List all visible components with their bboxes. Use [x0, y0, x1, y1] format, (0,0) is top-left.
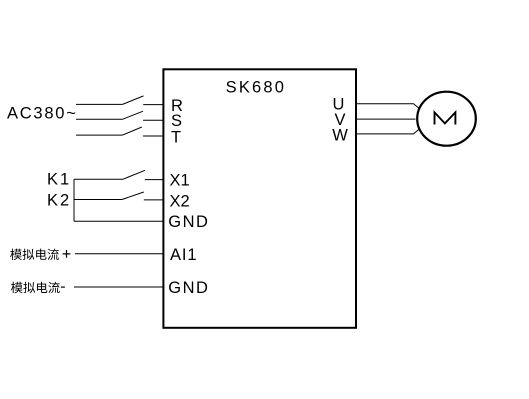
- label analog current - (模拟电流-): [11, 282, 65, 293]
- wire S phase input: [76, 118, 123, 120]
- wire W to motor: [356, 129, 419, 134]
- wire to terminal X2: [144, 199, 164, 201]
- wire U to motor: [356, 104, 419, 109]
- wire to terminal S: [143, 119, 164, 121]
- wire to terminal X1: [145, 179, 164, 181]
- svg-text:AC380~: AC380~: [7, 105, 78, 123]
- svg-text:GND: GND: [168, 279, 209, 297]
- switch S2 (phase S): [123, 111, 144, 119]
- svg-text:K2: K2: [47, 192, 71, 210]
- wire AI1 input: [75, 253, 164, 255]
- label M (motor): [435, 112, 456, 124]
- svg-text:S: S: [171, 112, 182, 130]
- svg-text:T: T: [171, 129, 181, 147]
- svg-text:SK680: SK680: [226, 78, 287, 96]
- svg-text:K1: K1: [47, 170, 71, 188]
- wire V to motor: [356, 118, 416, 120]
- wire T phase input: [76, 134, 123, 136]
- svg-text:AI1: AI1: [170, 246, 197, 264]
- svg-text:W: W: [332, 126, 348, 144]
- wire K1 input: [74, 178, 123, 180]
- switch S1 (phase R): [123, 96, 144, 105]
- switch S5 (K2): [122, 192, 144, 200]
- motor M1: [417, 92, 476, 146]
- switch S3 (phase T): [123, 127, 142, 135]
- svg-text:GND: GND: [168, 213, 209, 231]
- svg-text:X2: X2: [170, 193, 190, 211]
- wire K common bus (vertical): [73, 179, 75, 221]
- wire to terminal T: [143, 135, 164, 137]
- wire to terminal R: [143, 104, 163, 106]
- inverter U1 (SK680 drive): [163, 69, 356, 328]
- wire common to GND terminal: [74, 220, 164, 222]
- switch S4 (K1): [123, 170, 145, 179]
- wire GND (analog) input: [74, 286, 164, 288]
- wire R phase input: [76, 103, 123, 105]
- label analog current + (模拟电流+): [10, 249, 70, 260]
- svg-text:X1: X1: [170, 171, 190, 189]
- wire K2 input: [74, 199, 122, 201]
